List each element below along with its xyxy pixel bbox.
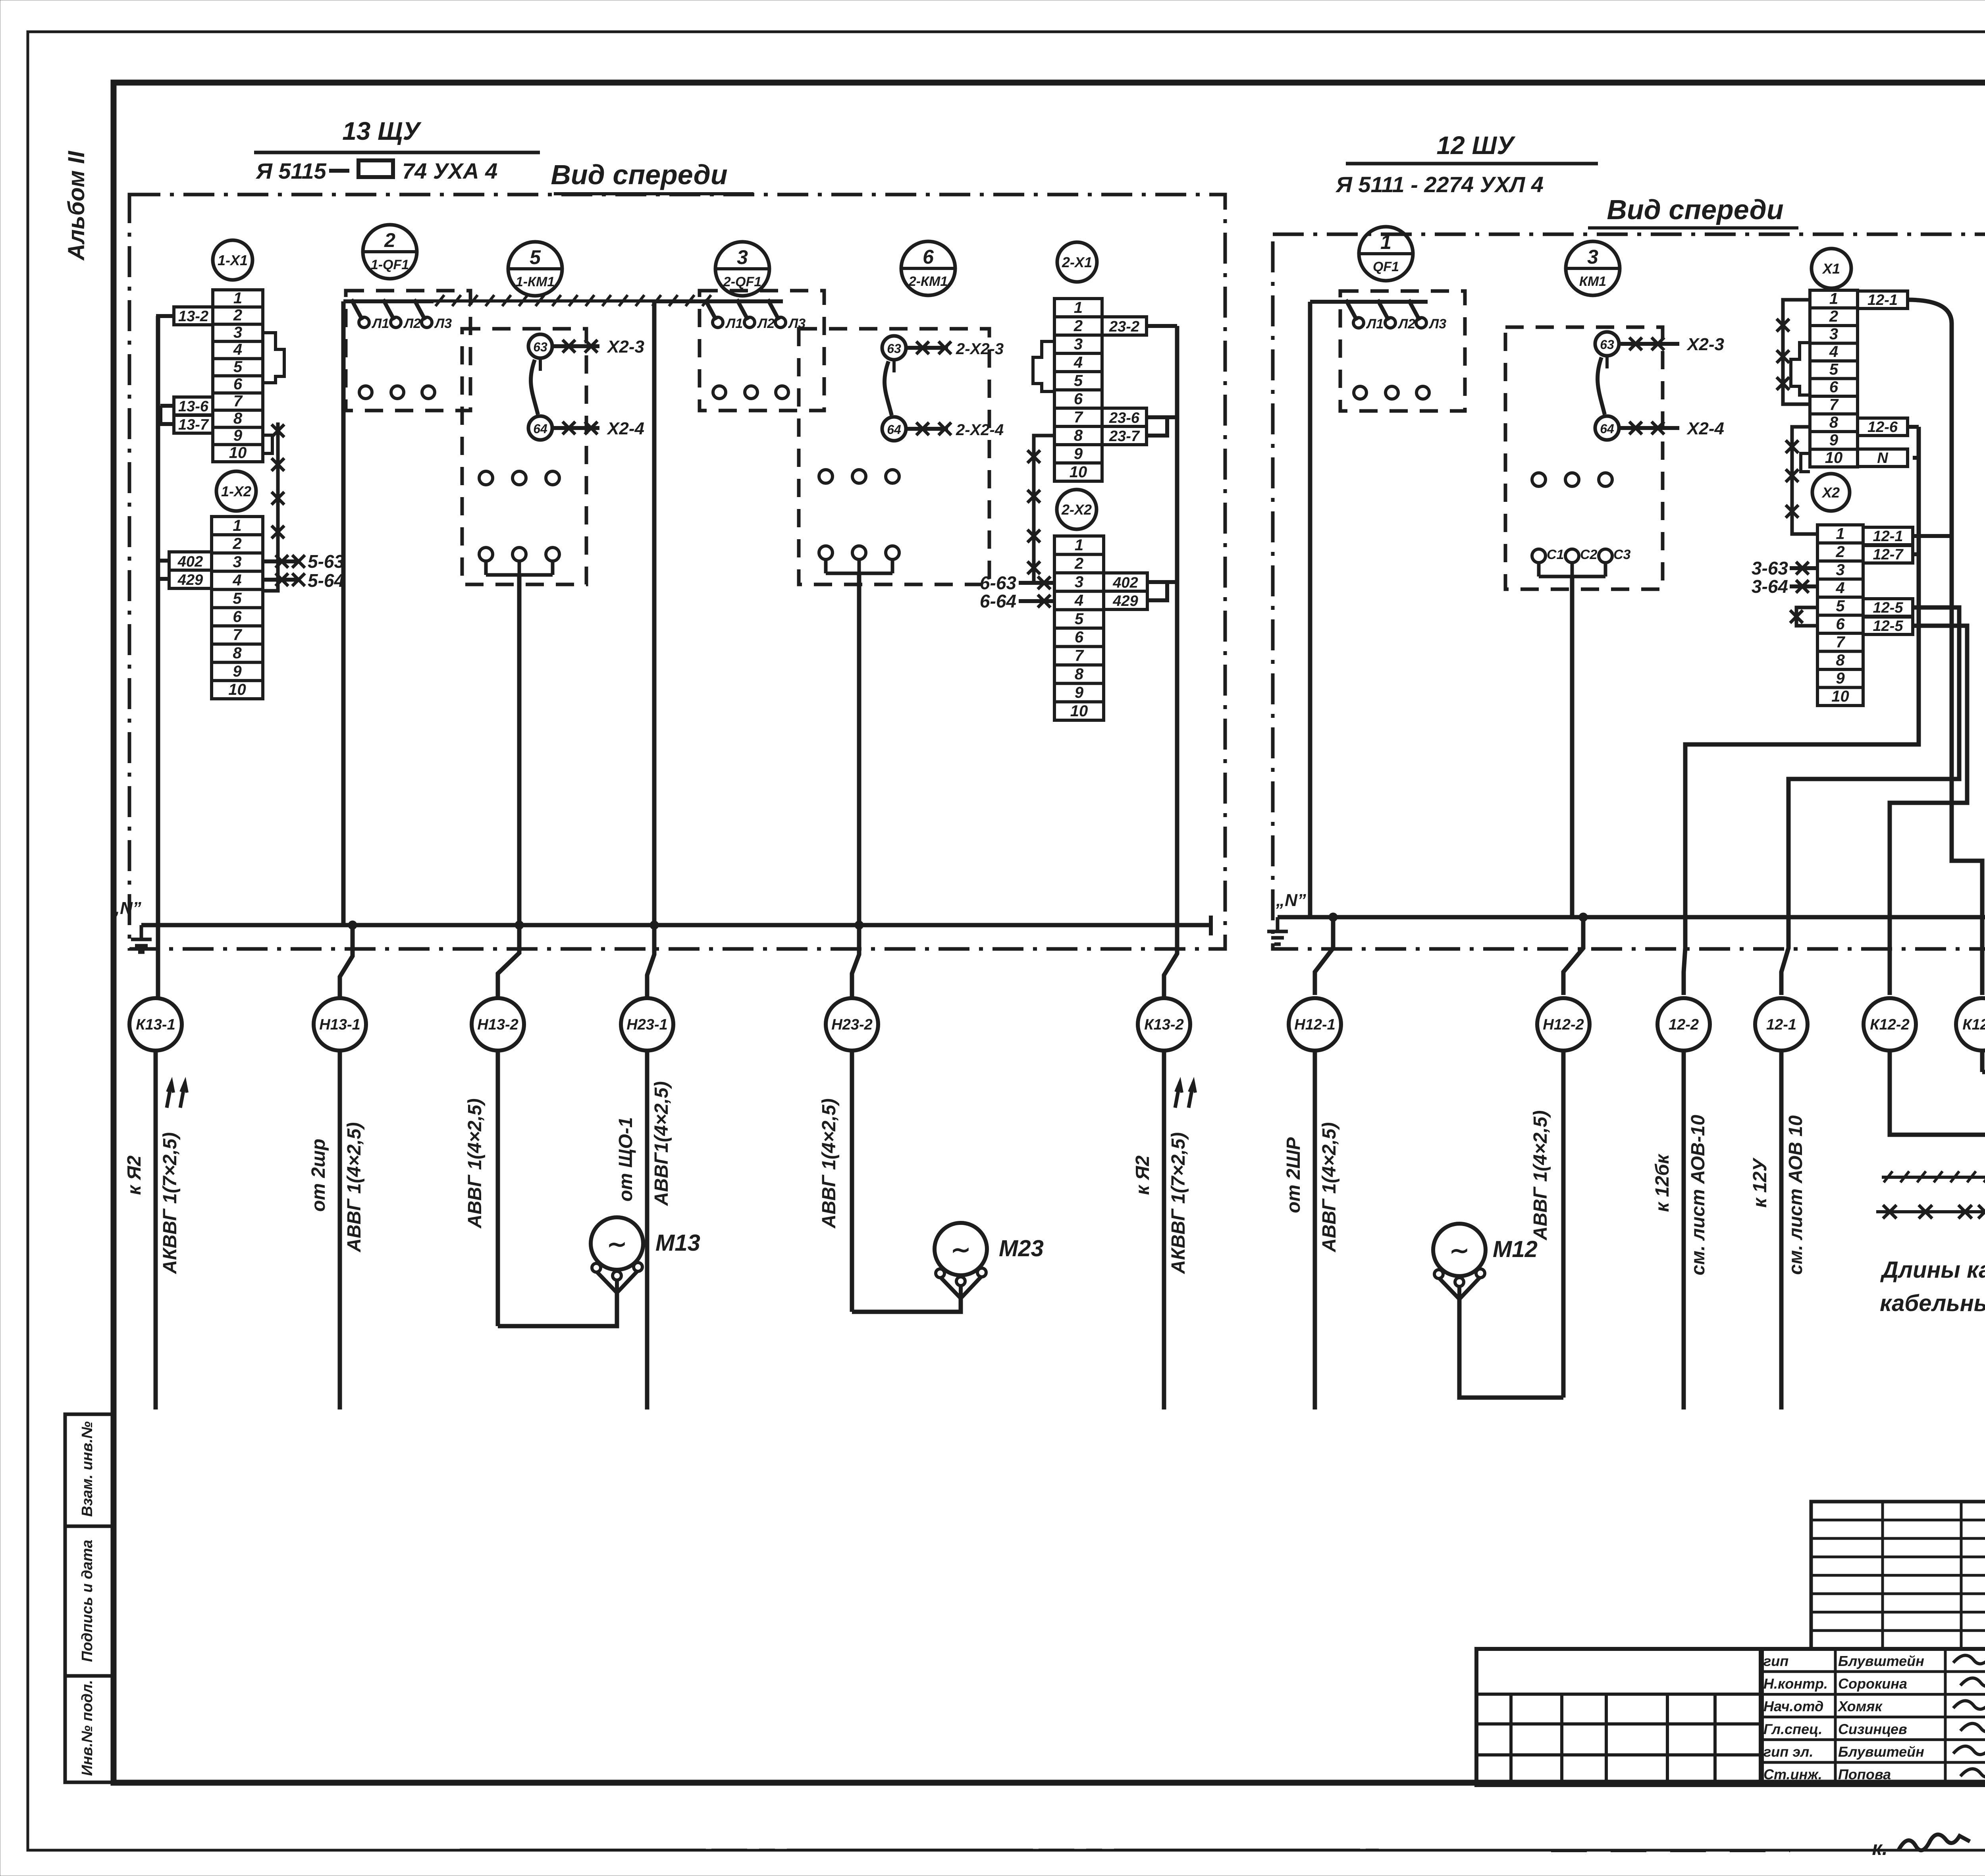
svg-text:2-X1: 2-X1 [1062, 254, 1092, 270]
junction H13-1 [348, 921, 357, 929]
label 402 (1-X2) [169, 552, 212, 570]
wire X2 12-1 stub [1913, 534, 1952, 538]
svg-text:5: 5 [1829, 361, 1839, 378]
svg-text:9: 9 [1075, 684, 1084, 701]
bus N 12ШУ [1278, 915, 1985, 920]
svg-text:1-X1: 1-X1 [218, 252, 248, 268]
title block names [1762, 1649, 1985, 1785]
svg-text:АВВГ 1(4×2,5): АВВГ 1(4×2,5) [344, 1122, 365, 1253]
wire M13 loop [498, 1293, 617, 1326]
junction H13-2 [515, 921, 524, 929]
svg-text:Л1: Л1 [725, 316, 743, 331]
svg-text:2-КМ1: 2-КМ1 [908, 274, 948, 289]
svg-text:„N”: „N” [1276, 891, 1306, 910]
title block revision table [1476, 1649, 1761, 1785]
svg-text:К12-2: К12-2 [1870, 1016, 1909, 1033]
cable mark H23-2 [826, 998, 878, 1051]
label 429 (1-X2) [169, 570, 212, 588]
terminal block 1-X2 label [216, 471, 256, 511]
svg-text:1: 1 [1829, 290, 1838, 308]
label 12-1 (X1) [1858, 291, 1908, 308]
svg-text:Л2: Л2 [403, 316, 421, 331]
svg-text:Вид спереди: Вид спереди [1607, 194, 1783, 225]
svg-text:Взам. инв.№: Взам. инв.№ [79, 1421, 96, 1517]
svg-text:8: 8 [1829, 414, 1839, 431]
wire 23-2 stub [1147, 324, 1177, 328]
cable mark H12-2 [1537, 998, 1590, 1051]
svg-text:6: 6 [1075, 629, 1084, 646]
svg-text:С2: С2 [1580, 547, 1598, 562]
label N (X1) [1858, 449, 1908, 467]
wire K12-1 to cable [1980, 1051, 1985, 1072]
svg-text:∼: ∼ [1449, 1237, 1469, 1264]
svg-text:5: 5 [1075, 610, 1084, 628]
svg-text:∼: ∼ [951, 1236, 971, 1263]
label 12-5 (X2) row5 [1863, 599, 1913, 616]
svg-text:1: 1 [1836, 525, 1844, 542]
svg-text:1: 1 [1074, 299, 1083, 316]
junction K13-2 [1177, 925, 1178, 925]
svg-text:см. лист АОВ-10: см. лист АОВ-10 [1688, 1114, 1709, 1275]
wire 2-QF1 feed [654, 299, 783, 303]
contactor 2-KM1 label [901, 241, 955, 295]
panel 13ЩУ boundary [129, 195, 1225, 949]
svg-text:Инв.№ подл.: Инв.№ подл. [79, 1680, 96, 1776]
wire M12 loop [1459, 1299, 1563, 1398]
ground right panel [1276, 917, 1280, 931]
svg-text:АВВГ1(4×2,5): АВВГ1(4×2,5) [651, 1081, 672, 1206]
svg-text:X2-3: X2-3 [606, 337, 644, 357]
svg-text:К13-2: К13-2 [1144, 1016, 1183, 1033]
cable drop K13-2 [1162, 1051, 1166, 1409]
svg-text:2-QF1: 2-QF1 [723, 274, 761, 289]
cable mark K12-1 bottom [1956, 998, 1985, 1051]
svg-text:3: 3 [737, 246, 748, 268]
panel 12ШУ boundary [1273, 234, 1985, 949]
svg-text:12-1: 12-1 [1873, 528, 1903, 545]
wire 13-7 stub [160, 406, 174, 424]
svg-text:Попова: Попова [1838, 1766, 1891, 1783]
contactor 1-KM1 contacts [528, 334, 552, 358]
svg-text:Н23-1: Н23-1 [626, 1016, 668, 1033]
svg-text:10: 10 [1825, 449, 1843, 467]
svg-text:от ЩО-1: от ЩО-1 [615, 1117, 636, 1202]
svg-text:6: 6 [1829, 378, 1839, 396]
terminal block 2-X1 [1054, 299, 1102, 481]
svg-text:3: 3 [1836, 561, 1844, 578]
label 13-6 [174, 397, 213, 415]
terminal block X2 label [1812, 474, 1850, 511]
terminal block 1-X1 label [213, 240, 252, 280]
contactor KM1 label [1566, 241, 1620, 295]
svg-text:Н13-1: Н13-1 [319, 1016, 360, 1033]
contactor KM1 contacts [1595, 332, 1619, 356]
svg-text:гип: гип [1763, 1653, 1788, 1669]
svg-text:6: 6 [233, 608, 242, 625]
breaker 2-QF1 [700, 291, 824, 411]
svg-text:64: 64 [1600, 422, 1614, 436]
svg-text:2: 2 [1829, 308, 1838, 325]
svg-text:6-63: 6-63 [980, 573, 1016, 593]
wire H12-2 jog [1563, 917, 1583, 995]
svg-text:1: 1 [1380, 231, 1391, 253]
svg-text:64: 64 [887, 422, 901, 437]
svg-text:9: 9 [233, 663, 242, 680]
wire 1-QF1 feed [343, 299, 434, 303]
svg-text:2: 2 [1073, 317, 1083, 335]
wire K13-2 jog [1164, 925, 1177, 998]
svg-text:к 12У: к 12У [1750, 1157, 1771, 1208]
svg-text:9: 9 [233, 427, 243, 444]
svg-text:10: 10 [1070, 463, 1087, 481]
svg-text:13-6: 13-6 [178, 398, 209, 415]
cable drop H23-1 [645, 1051, 649, 1409]
svg-text:8: 8 [233, 644, 242, 662]
svg-text:402: 402 [177, 553, 203, 570]
svg-text:12-7: 12-7 [1873, 546, 1904, 563]
svg-text:Сизинцев: Сизинцев [1838, 1721, 1907, 1737]
svg-text:Я 5111 - 2274 УХЛ 4: Я 5111 - 2274 УХЛ 4 [1335, 172, 1544, 197]
svg-text:1: 1 [1075, 536, 1083, 554]
cable mark 12-2 [1657, 998, 1710, 1051]
jumper chain X1 to X2 [1792, 427, 1817, 534]
wire M23 loop [852, 1298, 961, 1312]
svg-text:3: 3 [1074, 335, 1083, 353]
svg-text:Длины кабельных линий см. жу: Длины кабельных линий см. журнал [1880, 1257, 1985, 1283]
svg-text:12-6: 12-6 [1867, 419, 1898, 436]
svg-text:1: 1 [233, 289, 242, 307]
svg-text:4: 4 [1074, 592, 1083, 609]
svg-text:6: 6 [1836, 615, 1845, 633]
svg-text:4: 4 [1829, 343, 1838, 361]
svg-text:3-63: 3-63 [1752, 558, 1788, 578]
label 13-7 [174, 415, 213, 433]
wire M13 drop in panel [517, 575, 522, 925]
legend jumper symbol [1876, 1210, 1985, 1213]
left margin box Инв № подл [65, 1676, 114, 1782]
svg-text:∼: ∼ [607, 1231, 627, 1257]
svg-text:5: 5 [233, 590, 242, 607]
svg-text:М23: М23 [999, 1236, 1044, 1261]
svg-text:К13-1: К13-1 [136, 1016, 175, 1033]
cable drop H13-1 [338, 1051, 342, 1409]
cable mark H23-1 [621, 998, 673, 1051]
svg-text:Н23-2: Н23-2 [831, 1016, 873, 1033]
wire 23-7 stub [1147, 417, 1177, 436]
svg-text:2: 2 [1835, 543, 1844, 561]
terminal 1-X1 right tab A [263, 333, 284, 383]
wire X2 12-5 row6 to K12-2 [1890, 626, 1967, 995]
svg-text:Нач.отд: Нач.отд [1763, 1698, 1823, 1714]
svg-text:13 ЩУ: 13 ЩУ [342, 117, 422, 145]
svg-text:6: 6 [923, 246, 934, 268]
junction H12-2 [1579, 913, 1588, 922]
cable drop H23-2 [850, 1051, 854, 1312]
svg-text:7: 7 [1836, 633, 1845, 651]
svg-text:2: 2 [233, 307, 242, 324]
svg-text:4: 4 [232, 572, 241, 589]
wire to dismantle (hatched) [434, 299, 721, 303]
wire H23-2 jog [852, 925, 859, 998]
svg-text:429: 429 [177, 572, 203, 588]
svg-text:Н12-2: Н12-2 [1543, 1016, 1584, 1033]
wire 402 stub right [1147, 580, 1177, 584]
svg-text:К12-1: К12-1 [1962, 1016, 1985, 1033]
breaker 1-QF1 label [363, 225, 417, 279]
svg-text:АВВГ 1(4×2,5): АВВГ 1(4×2,5) [819, 1099, 840, 1229]
svg-text:1-QF1: 1-QF1 [371, 257, 409, 272]
wire 402 stub [158, 559, 169, 563]
wire H23-1 jog [647, 925, 654, 998]
svg-text:N: N [1877, 450, 1889, 467]
cable K12-1 run [1982, 481, 1985, 1072]
jumper chain 1-X1 to 1-X2 [263, 422, 278, 591]
svg-text:5: 5 [233, 358, 243, 376]
svg-text:Н.контр.: Н.контр. [1763, 1675, 1828, 1692]
svg-text:8: 8 [1075, 665, 1084, 683]
svg-text:QF1: QF1 [1373, 259, 1399, 274]
svg-text:от 2ШР: от 2ШР [1283, 1137, 1304, 1213]
svg-text:АВВГ 1(4×2,5): АВВГ 1(4×2,5) [464, 1099, 486, 1229]
svg-text:23-2: 23-2 [1109, 318, 1139, 335]
wire 429 stub [158, 561, 169, 579]
wire H13-2 jog [498, 925, 519, 998]
svg-text:6: 6 [233, 375, 243, 393]
wire 23-6 stub [1147, 415, 1167, 419]
svg-text:АКВВГ 1(7×2,5): АКВВГ 1(7×2,5) [1168, 1132, 1189, 1274]
svg-text:X2-4: X2-4 [606, 419, 644, 438]
svg-text:к Я2: к Я2 [124, 1155, 145, 1195]
wire 429 stub right [1147, 582, 1167, 600]
svg-text:10: 10 [1831, 688, 1849, 705]
motor M12 [1433, 1224, 1486, 1276]
wire H12-1 jog [1315, 917, 1333, 995]
svg-text:74 УХА 4: 74 УХА 4 [402, 158, 497, 183]
label 12-1 (X2) [1863, 527, 1913, 545]
junction H12-1 [1329, 913, 1337, 922]
label 12-7 (X2) [1863, 546, 1913, 563]
junction H23-2 [855, 921, 863, 929]
wire 13-2 stub [158, 316, 174, 325]
wire QF1 feed [1310, 300, 1428, 304]
wire H23-1 riser [652, 301, 657, 925]
svg-text:10: 10 [1070, 702, 1088, 720]
svg-text:М13: М13 [655, 1230, 700, 1256]
svg-text:Н13-2: Н13-2 [477, 1016, 518, 1033]
terminal block X2 [1817, 525, 1863, 706]
wire M23 drop in panel [857, 573, 861, 925]
svg-text:Н12-1: Н12-1 [1294, 1016, 1336, 1033]
junction H23-1 [650, 921, 659, 929]
svg-text:6-64: 6-64 [980, 591, 1016, 611]
svg-text:7: 7 [233, 626, 242, 644]
terminal X1 left tab B [1801, 453, 1810, 472]
svg-text:7: 7 [1829, 396, 1839, 414]
svg-text:X2: X2 [1821, 484, 1840, 501]
breaker QF1 label [1359, 227, 1413, 281]
wire M12 drop in panel [1570, 576, 1575, 917]
cable drop 12-2 [1682, 1051, 1686, 1409]
jumper 5-64 [263, 578, 300, 582]
svg-text:Л1: Л1 [371, 316, 389, 331]
left margin box ВЗАМ ИНВ [65, 1414, 114, 1526]
svg-text:12-1: 12-1 [1867, 292, 1898, 308]
svg-text:КМ1: КМ1 [1579, 274, 1606, 289]
svg-text:Блувштейн: Блувштейн [1838, 1653, 1924, 1669]
wire 13-6 stub [160, 404, 174, 408]
svg-text:Ст.инж.: Ст.инж. [1763, 1766, 1822, 1783]
svg-text:5: 5 [530, 246, 541, 268]
svg-text:1-X2: 1-X2 [221, 483, 251, 499]
cable mark K13-2 [1138, 998, 1190, 1051]
wire X1 12-1 to K12-1 [1908, 300, 1952, 324]
svg-text:к 12бк: к 12бк [1652, 1153, 1673, 1212]
svg-text:8: 8 [233, 410, 243, 427]
svg-text:2: 2 [384, 229, 395, 251]
svg-text:кабельных проводок листы ЭМ-1: кабельных проводок листы ЭМ-17÷ ЭМ-19. [1880, 1290, 1985, 1316]
svg-text:2-X2-3: 2-X2-3 [956, 340, 1004, 358]
svg-text:63: 63 [533, 340, 547, 354]
left margin box Подпись и дата [65, 1526, 114, 1676]
svg-text:2: 2 [1074, 555, 1083, 573]
terminal block X1 label [1812, 249, 1851, 288]
cable drop H12-1 [1313, 1051, 1317, 1409]
svg-text:Вид спереди: Вид спереди [551, 159, 727, 190]
cable mark K12-2 [1864, 998, 1916, 1051]
motor M23 [935, 1223, 987, 1275]
svg-text:Сорокина: Сорокина [1838, 1675, 1907, 1692]
legend dismantle symbol [1882, 1176, 1985, 1179]
svg-text:Л3: Л3 [1428, 316, 1446, 332]
label 23-7 [1102, 426, 1147, 445]
svg-text:10: 10 [228, 681, 246, 698]
svg-text:6: 6 [1074, 390, 1083, 408]
svg-text:АВВГ 1(4×2,5): АВВГ 1(4×2,5) [1530, 1111, 1551, 1241]
contactor KM1 box [1505, 327, 1663, 589]
svg-text:5-64: 5-64 [308, 570, 344, 591]
cable K12-2 run [1890, 854, 1985, 1135]
svg-text:1-КМ1: 1-КМ1 [516, 274, 555, 289]
svg-text:3: 3 [1075, 573, 1083, 591]
svg-text:13-7: 13-7 [178, 416, 209, 433]
svg-text:4: 4 [233, 341, 242, 359]
svg-text:9: 9 [1829, 432, 1839, 449]
motor M13 [591, 1217, 643, 1270]
svg-text:Подпись и дата: Подпись и дата [79, 1540, 96, 1662]
label 23-2 [1102, 317, 1147, 335]
wire K13-2 riser [1175, 326, 1179, 925]
svg-text:Л2: Л2 [757, 316, 775, 331]
svg-text:М12: М12 [1493, 1236, 1538, 1262]
svg-text:С1: С1 [1547, 547, 1564, 562]
cable mark H12-1 [1289, 998, 1341, 1051]
terminal block 2-X2 label [1057, 490, 1097, 529]
svg-text:63: 63 [887, 341, 901, 356]
svg-text:63: 63 [1600, 337, 1614, 352]
breaker 1-QF1 [346, 291, 470, 411]
svg-text:7: 7 [233, 393, 243, 410]
svg-text:Хомяк: Хомяк [1837, 1698, 1883, 1714]
svg-text:4: 4 [1073, 354, 1083, 371]
contactor 2-KM1 box [799, 329, 989, 584]
contactor 1-KM1 terminals [479, 471, 493, 485]
svg-text:АКВВГ 1(7×2,5): АКВВГ 1(7×2,5) [160, 1132, 181, 1274]
svg-text:12-1: 12-1 [1766, 1016, 1796, 1033]
wire H12-1 riser [1308, 302, 1312, 917]
cable drop H13-2 [496, 1051, 500, 1326]
svg-text:от 2шр: от 2шр [308, 1139, 329, 1212]
svg-text:С3: С3 [1613, 547, 1631, 562]
ground left panel [140, 925, 143, 939]
svg-text:2-X2-4: 2-X2-4 [956, 421, 1004, 439]
terminal X1 left tab [1791, 343, 1810, 395]
label 13-2 [174, 307, 213, 325]
svg-text:5-63: 5-63 [308, 551, 344, 572]
cable mark 12-1 [1755, 998, 1808, 1051]
svg-text:3: 3 [1587, 246, 1598, 268]
svg-text:Л3: Л3 [434, 316, 452, 331]
wire K13-1 riser [156, 316, 160, 998]
svg-text:12-5: 12-5 [1873, 618, 1903, 634]
svg-text:5: 5 [1074, 372, 1083, 389]
svg-text:12-5: 12-5 [1873, 600, 1903, 616]
cable mark K13-1 [129, 998, 182, 1051]
svg-text:Блувштейн: Блувштейн [1838, 1744, 1924, 1760]
terminal block X1 [1810, 290, 1858, 467]
jumper 5-63 [263, 559, 300, 563]
wire 12-2 jog [1684, 917, 1685, 995]
svg-text:X2-4: X2-4 [1686, 419, 1724, 438]
jumper chain X1 left [1783, 300, 1810, 404]
contactor 1-KM1 label [508, 242, 562, 296]
svg-text:3-64: 3-64 [1752, 576, 1788, 597]
cable drop K13-1 [154, 1051, 158, 1409]
svg-text:АВВГ 1(4×2,5): АВВГ 1(4×2,5) [1319, 1122, 1340, 1253]
terminal 2-X1 left tab [1033, 341, 1054, 391]
bus N 13ЩУ [141, 923, 1211, 927]
svg-text:гип эл.: гип эл. [1763, 1744, 1813, 1760]
svg-text:Л2: Л2 [1397, 316, 1415, 332]
svg-text:64: 64 [533, 422, 547, 436]
svg-text:3: 3 [1829, 326, 1838, 343]
svg-text:23-6: 23-6 [1109, 410, 1140, 426]
wire N/12-7/12-6 to 12-2 [1907, 425, 1919, 429]
svg-text:„N”: „N” [111, 898, 141, 918]
contactor KM1 terminals [1532, 473, 1546, 486]
contactor 2-KM1 terminals [819, 470, 833, 483]
svg-text:Я 5115: Я 5115 [255, 158, 327, 183]
svg-text:429: 429 [1112, 593, 1138, 609]
svg-text:402: 402 [1112, 575, 1138, 591]
svg-text:2: 2 [232, 535, 241, 553]
svg-text:23-7: 23-7 [1109, 428, 1140, 445]
svg-text:Гл.спец.: Гл.спец. [1763, 1721, 1822, 1737]
breaker 2-QF1 label [715, 242, 769, 296]
svg-text:X2-3: X2-3 [1686, 335, 1724, 354]
terminal block 2-X1 label [1057, 242, 1097, 282]
svg-text:4: 4 [1835, 579, 1844, 597]
svg-text:Альбом II: Альбом II [64, 150, 89, 261]
svg-text:12-2: 12-2 [1669, 1016, 1699, 1033]
svg-text:7: 7 [1074, 409, 1083, 426]
svg-text:1: 1 [233, 517, 241, 534]
svg-text:X1: X1 [1822, 260, 1840, 277]
svg-text:Л1: Л1 [1366, 316, 1384, 332]
wire H13-1 jog [340, 925, 353, 998]
contactor 2-KM1 contacts [882, 336, 906, 360]
label 429 (2-X2) [1104, 591, 1147, 609]
breaker QF1 [1340, 291, 1465, 411]
